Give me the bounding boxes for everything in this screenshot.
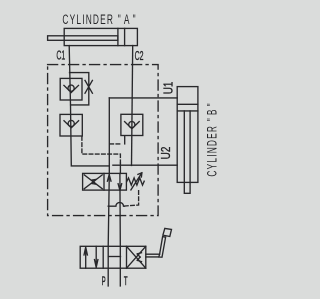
valve flow arrow up [107,175,111,182]
wire U1 to cylinder B [109,97,177,99]
pump middle bar P-T [108,256,120,258]
relief valve adjust arrow [131,173,142,190]
svg-text:P: P [102,275,106,288]
wire valve port B stub [119,163,121,173]
cylinder B rod [184,111,190,193]
manifold enclosure (dash-dot box) [48,65,159,216]
check valve CV1 poppet [68,85,74,91]
svg-text:T: T [124,275,128,287]
svg-text:U1: U1 [163,82,176,95]
wire U2 line to cylinder B [113,164,177,166]
wire C1 from cylinder A to check valves and across to riser [69,46,109,166]
pilot line from CV2 to U2 net (dashed) [82,137,121,163]
cylinder B piston [177,103,198,105]
svg-text:C2: C2 [135,50,144,64]
svg-text:CYLINDER "A": CYLINDER "A" [62,13,136,27]
pilot line from riser to CV3 (dashed) [110,143,122,145]
relief valve spring [127,178,145,185]
orifice bypass loop around CV1 [70,73,89,105]
valve closed-position X arrows [84,175,102,189]
svg-text:C1: C1 [56,49,65,63]
svg-text:CYLINDER "B": CYLINDER "B" [205,102,219,176]
directional valve U1/U2 body [83,173,127,190]
check valve CV1 box [60,78,82,100]
pump lever knob [163,228,172,236]
riser wire U1/P net [108,98,110,173]
check valve CV2 poppet [68,120,74,126]
cylinder A rod [48,36,118,41]
pump lever link [146,254,160,257]
orifice X symbol [85,80,92,93]
wire T from valve through pump to port T [119,173,121,286]
check valve CV2 box [60,114,82,136]
check valve CV3 poppet [129,122,135,128]
cylinder B body [177,87,198,183]
cylinder A body [64,28,137,45]
wire C2 from cylinder A through CV3 down to U2 line [132,46,133,166]
relief drain wire with hop over T line [108,202,124,206]
hand pump body [80,246,146,268]
wire P from valve through pump to port P [108,173,109,286]
pump crossed arrows [127,246,146,268]
valve flow arrow down [118,184,122,191]
svg-text:U2: U2 [160,147,173,160]
pump down arrow [95,246,98,267]
check valve CV3 box [121,114,143,135]
pump up arrow [84,247,87,268]
cylinder A piston [117,28,119,45]
pump lever arm [159,237,166,258]
